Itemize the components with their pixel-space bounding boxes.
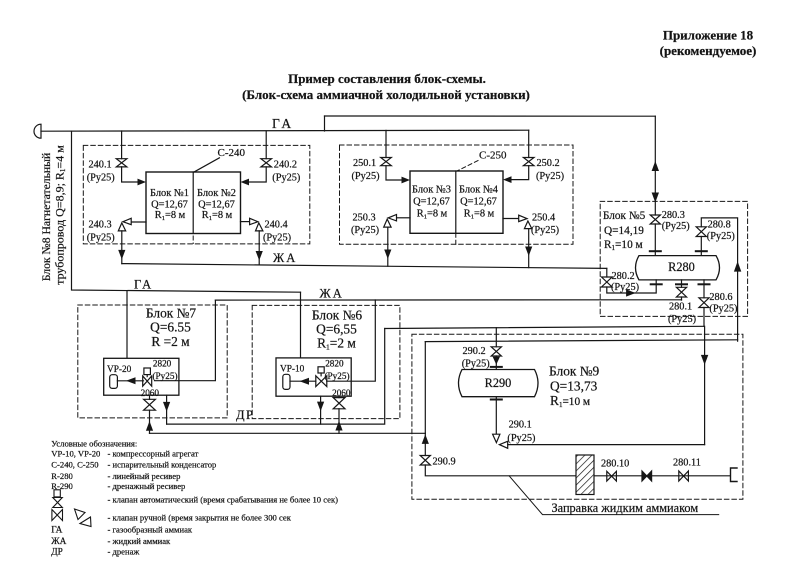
pipe drain line 2 [150,432,426,434]
pipe left discharge bus [72,131,301,292]
svg-text:250.4: 250.4 [532,213,555,224]
flange 280.8 nozzle [696,250,707,252]
label C-250 [479,150,507,162]
valve 280.10 [607,471,617,481]
arrow down 240.3 [118,250,125,260]
label Заправка жидким аммиаком [552,501,699,515]
svg-text:(Ру25): (Ру25) [462,358,490,369]
arrow down 240.4 [256,251,263,261]
svg-text:R1=8 м: R1=8 м [417,209,448,221]
pipe from 250.1 into block3 [386,166,402,180]
valve 280.8 [696,227,706,237]
label VP-10 [280,365,305,375]
label 250.3 [351,213,379,237]
svg-text:R1=8 м: R1=8 м [464,209,495,221]
valve 290.2 [491,347,501,356]
label block1 text [150,188,189,222]
svg-text:Пример составления блок-схемы.: Пример составления блок-схемы. [288,71,486,86]
node drop to R280 from header [654,116,656,215]
svg-text:(Ру25): (Ру25) [662,221,690,232]
label ЖА lower [320,287,344,301]
pipe ГА drop into VP-20 [126,291,128,358]
svg-text:Q=12,67: Q=12,67 [460,197,497,208]
svg-text:R =2 м: R =2 м [151,334,190,349]
pipe 2060 to drain line 2 (block6) [338,409,340,434]
label 280.11 [673,457,701,468]
svg-text:(Ру25): (Ру25) [707,231,735,242]
svg-text:Блок №6: Блок №6 [312,308,363,323]
label 2820 (block7) [153,359,178,381]
svg-text:2820: 2820 [325,358,344,368]
svg-text:ГА: ГА [134,278,153,292]
arrow into block2 [241,179,250,186]
valve 280.3 [650,215,660,224]
pipe 250.3 drop to ЖА [387,227,389,266]
svg-text:240.2: 240.2 [274,160,297,171]
svg-text:ГА: ГА [51,526,62,536]
label 290.9 [433,456,456,467]
label C-240 [218,147,246,159]
pipe 280.2 to vessel bottom-left nozzle [607,286,656,294]
arrow down on VP-20 drain [163,402,170,412]
valve filled middle [642,471,652,481]
svg-text:Блок №3: Блок №3 [412,185,451,196]
leader C-250 dashed [456,161,478,246]
legend symbol auto valve [53,490,63,508]
svg-text:VP-10, VP-20: VP-10, VP-20 [51,448,100,458]
pipe end cap (semicircle) [34,124,41,138]
arrow down on VP-10 drain [317,402,324,412]
label ГА lower [134,278,153,292]
valve 250.1 drop pipe [385,130,387,157]
svg-text:- клапан ручной (время закрыти: - клапан ручной (время закрытия не более… [108,512,292,522]
svg-text:R280: R280 [668,260,695,274]
valve 240.2 drop pipe [265,131,267,159]
svg-text:280.3: 280.3 [662,210,685,221]
label 280.3 [662,210,690,232]
arrow left inside VP-20 [126,377,136,384]
label ЖА upper [273,251,297,265]
svg-text:Блок №1: Блок №1 [150,188,189,199]
label block2 text [197,188,236,222]
svg-text:Блок №9: Блок №9 [549,364,600,379]
svg-text:250.3: 250.3 [353,213,376,224]
svg-text:С-240, С-250: С-240, С-250 [51,460,98,470]
pipe 2060 to drain line 2 [149,410,151,433]
label 250.1 [352,158,380,182]
pipe ГА discharge header top [41,130,529,131]
pipe from 240.1 into block1 [122,167,138,182]
pipe riser drains to L4 [424,342,426,434]
svg-text:280.2: 280.2 [612,271,635,282]
flange bottom-right nozzle [699,283,710,285]
label ДР [236,408,254,422]
arrow into block1 [138,179,147,186]
divider blocks 1/2 [192,172,194,234]
flange R290 bottom nozzle [495,397,497,400]
pipe VP-10 drain drop [320,396,322,424]
arrow up above 290.9 [422,434,429,444]
arrow down into R290 [493,357,500,365]
svg-text:ДР: ДР [51,547,63,557]
svg-text:(Ру25): (Ру25) [507,433,535,444]
label: Приложение 18 [660,28,757,58]
valve 2820 (block7) with actuator [143,368,152,386]
pipe drop from L3 to 290.2 [495,328,497,347]
legend symbol corner valve [75,509,92,527]
label 280.8 [707,219,735,242]
arrow up on 2060 drop (block7) [146,421,153,431]
svg-text:(Ру25): (Ру25) [87,233,115,244]
svg-text:250.1: 250.1 [353,158,376,169]
svg-text:Приложение 18: Приложение 18 [663,28,754,43]
pipe 2820 feed from ЖА header [155,300,216,381]
label R280 [668,260,695,274]
svg-text:(Блок-схема аммиачной холодиль: (Блок-схема аммиачной холодильной устано… [242,87,530,102]
svg-text:- дренажный ресивер: - дренажный ресивер [108,481,186,491]
arrow down 250.4 [525,247,532,257]
valve 280.6 [699,298,709,308]
label Блок №9 [549,364,600,409]
svg-text:Q=12,67: Q=12,67 [413,197,450,208]
svg-text:290.9: 290.9 [433,456,456,467]
leader Заправка [509,476,719,515]
arrow into block4 [503,176,512,183]
label 290.1 [507,419,535,444]
svg-text:(Ру25): (Ру25) [668,314,696,325]
legend symbol manual valve bowtie [52,510,63,521]
arrow down 250.3 [384,250,391,260]
label 290.2 [462,346,490,369]
svg-text:(рекомендуемое): (рекомендуемое) [660,43,757,58]
valve 250.1 [381,158,392,166]
svg-text:(Ру25): (Ру25) [153,371,178,381]
node step jog at x=324.5 [324,116,326,131]
pipe liquid line L3 [385,326,704,328]
pipe inside VP-20 [117,380,143,382]
valve 280.2 [602,277,613,287]
valve 240.1 [116,159,127,167]
svg-text:R-280: R-280 [51,471,72,481]
svg-text:ГА: ГА [272,116,294,131]
svg-text:ЖА: ЖА [51,537,66,547]
valve 2820 (block6) with actuator [316,367,327,387]
svg-text:(Ру25): (Ру25) [611,282,639,293]
svg-text:Заправка жидким аммиаком: Заправка жидким аммиаком [552,501,699,515]
pipe end bracket [731,468,738,482]
dashed box C-250 [340,145,574,244]
svg-text:трубопровод Q=8,9; R1=4 м: трубопровод Q=8,9; R1=4 м [53,145,68,285]
vessel R290 [459,370,539,397]
svg-text:(Ру25): (Ру25) [87,173,115,184]
dashed box Блок №5 [600,201,747,316]
svg-text:- жидкий аммиак: - жидкий аммиак [108,536,172,546]
label legend title [51,439,338,558]
pipe ЖА supply header L2 [215,299,681,301]
svg-text:(Ру25): (Ру25) [709,303,737,314]
svg-text:Блок №7: Блок №7 [146,306,197,321]
pipe from 240.2 into block2 [249,167,266,182]
svg-text:Блок №2: Блок №2 [197,188,236,199]
pipe R290 bottom drop [495,400,497,435]
dashed box Блок №7 [78,305,227,418]
valve 280.1 [676,287,686,297]
valve 280.11 [679,471,689,481]
dashed box Блок №6 [252,305,400,418]
arrow left inside VP-10 [300,378,310,385]
label: title line 2 [242,87,530,102]
svg-text:280.11: 280.11 [673,457,701,468]
divider dashed tail [192,236,194,244]
svg-text:(Ру25): (Ру25) [536,171,564,182]
flange R290 top nozzle [491,366,502,368]
motor VP-10 [283,374,290,389]
motor VP-20 [110,375,118,389]
label Блок №8 vertical line 1 [40,153,53,282]
label block4 text [459,185,499,221]
svg-text:Q=12,67: Q=12,67 [198,199,235,210]
arrow down on x=704.6 [701,355,708,365]
dashed box C-240 [83,145,309,244]
valve 2060 (block6) [333,396,345,409]
svg-text:Q=12,67: Q=12,67 [151,199,188,210]
pipe ЖА line into 280.2 [606,268,608,277]
svg-text:- газообразный аммиак: - газообразный аммиак [108,525,193,535]
pipe drain return L4 [425,340,737,342]
compressor box VP-20 [104,358,179,395]
flange 280.3 nozzle [650,250,661,252]
svg-text:(Ру25): (Ру25) [531,225,559,236]
pipe 2820 feed from ЖА header (block6) [327,300,376,381]
svg-text:VP-10: VP-10 [280,365,305,375]
pipe 280.8 to vessel [700,237,702,256]
label 250.4 [531,213,559,237]
svg-text:Блок №5: Блок №5 [603,210,646,222]
block rect Блок №1/№2 [146,172,241,234]
leader C-240 [194,158,219,172]
svg-text:- компрессорный агрегат: - компрессорный агрегат [108,448,199,458]
svg-text:(Ру25): (Ру25) [352,171,380,182]
corner valve 250.3 [384,215,410,228]
label 240.2 [272,160,300,184]
arrow right 280.2 discharge [626,289,636,296]
svg-text:280.10: 280.10 [601,459,629,470]
svg-text:R1=8 м: R1=8 м [155,210,186,222]
label ГА (top) [272,116,294,131]
svg-text:С-250: С-250 [479,150,507,162]
svg-text:R1=10 м: R1=10 м [550,393,590,409]
label 240.4 [263,220,291,244]
dashed box Блок №9 (charging area) [412,334,743,499]
svg-text:280.8: 280.8 [708,219,731,230]
valve 2060 (block7) [144,395,156,410]
svg-text:ЖА: ЖА [273,251,297,265]
arrow up on 2060 drop (block6) [335,421,342,431]
pipe 280.6 down to liquid line L3 [703,308,705,327]
svg-text:VP-20: VP-20 [107,365,132,375]
svg-text:R1=8 м: R1=8 м [202,210,233,222]
pipe 290.9 branch [424,433,426,455]
pipe L3 to drain line [167,329,385,425]
pipe 280.6 junction down to 290.1 line [704,326,706,444]
svg-text:- клапан автоматический (время: - клапан автоматический (время срабатыва… [108,495,339,505]
label 280.6 [709,292,737,315]
label block3 text [412,185,451,221]
svg-text:Блок №8 Нагнетательный: Блок №8 Нагнетательный [40,153,53,282]
label 2060 (block7) [141,388,160,398]
pipe 290.1 discharge line [508,444,705,446]
svg-text:С-240: С-240 [218,147,246,159]
svg-text:250.2: 250.2 [537,158,560,169]
pipe 240.3 drop to ЖА [121,231,123,264]
arrow up on R280 drop [652,161,659,171]
svg-text:Q=14,19: Q=14,19 [604,225,644,237]
pipe 240.4 drop to ЖА [258,231,260,265]
label 240.3 [87,220,115,244]
svg-text:(Ру25): (Ру25) [325,371,350,381]
svg-text:Q=6.55: Q=6.55 [150,320,191,335]
svg-text:Блок №4: Блок №4 [459,185,499,196]
flange bottom-left nozzle [651,283,662,285]
pipe 250.4 drop to ЖА [528,229,530,268]
pipe from 250.2 into block4 [511,166,529,180]
wall crossing hatch [576,455,594,495]
pipe 280.8 overpass [701,218,737,341]
svg-text:- дренаж: - дренаж [108,546,140,556]
svg-text:ЖА: ЖА [320,287,344,301]
valve 290.9 [420,456,430,466]
label 2060 (block6) [332,388,351,398]
svg-text:2820: 2820 [153,359,172,369]
corner valve 290.1 [493,434,508,448]
svg-text:240.3: 240.3 [89,220,112,231]
pipe upper header y=116 [325,115,656,117]
flange bottom-middle nozzle [676,283,687,285]
arrow up riser [734,261,741,271]
svg-text:R1=10 м: R1=10 м [604,239,643,252]
svg-text:290.2: 290.2 [463,346,486,357]
label Блок №5 [603,210,646,252]
svg-text:240.1: 240.1 [89,160,112,171]
svg-text:- испарительный конденсатор: - испарительный конденсатор [108,460,217,470]
svg-text:- линейный ресивер: - линейный ресивер [108,471,181,481]
svg-text:Q=6,55: Q=6,55 [316,322,357,337]
pipe ГА drop into VP-10 [300,292,302,358]
svg-text:Условные обозначения:: Условные обозначения: [51,439,137,449]
svg-text:240.4: 240.4 [265,220,288,231]
label 240.1 [87,160,115,184]
pipe ЖА condensate line [122,264,607,269]
valve 250.2 [523,158,534,166]
pipe 280.1 to ЖА supply header [681,297,683,300]
label 2820 (block6) [325,358,350,381]
pipe 280.3 to vessel [654,224,656,256]
svg-text:R290: R290 [485,376,512,390]
label Блок №6 [312,308,363,352]
pipe inside VP-10 [290,380,316,382]
pipe charging line [425,465,729,476]
vessel R280 [636,256,720,280]
svg-text:(Ру25): (Ру25) [272,173,300,184]
svg-text:280.6: 280.6 [709,292,732,303]
label: title line 1 [288,71,486,86]
valve 250.2 drop pipe [528,130,530,157]
label 280.1 [668,301,696,325]
label 250.2 [536,158,564,182]
corner valve 240.4 [241,218,263,231]
divider blocks 3/4 [455,171,457,233]
label 280.10 [601,459,629,470]
svg-text:Q=13,73: Q=13,73 [550,379,598,394]
svg-text:R1=2 м: R1=2 м [317,336,356,352]
valve 240.2 [261,159,272,167]
svg-text:290.1: 290.1 [509,419,532,430]
corner valve 250.4 [503,215,532,228]
arrow down on R280 drop [652,193,659,203]
corner valve 240.3 [118,218,146,231]
arrow into block3 [402,177,411,184]
label Блок №7 [146,306,197,350]
svg-text:2060: 2060 [332,388,351,398]
block rect Блок №3/№4 [410,171,503,233]
svg-text:280.1: 280.1 [669,301,692,312]
compressor box VP-10 [276,358,351,396]
svg-text:(Ру25): (Ру25) [263,233,291,244]
pipe VP-20 drain drop [166,395,168,424]
label 280.2 [611,271,639,293]
svg-text:(Ру25): (Ру25) [351,225,379,236]
label R290 [485,376,512,390]
label VP-20 [107,365,132,375]
valve 240.1 drop pipe [121,131,123,159]
label Блок №8 vertical line 2 [53,145,68,285]
